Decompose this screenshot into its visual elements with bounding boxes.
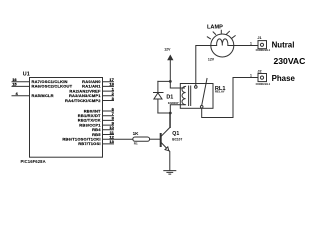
svg-text:230VAC: 230VAC <box>274 56 306 66</box>
svg-text:RA4/T0CKI/CMP2: RA4/T0CKI/CMP2 <box>65 98 101 103</box>
svg-text:1N4007: 1N4007 <box>168 101 179 105</box>
svg-text:Phase: Phase <box>272 74 296 83</box>
svg-text:RELAY: RELAY <box>215 90 225 94</box>
svg-text:U1: U1 <box>23 71 30 77</box>
svg-text:13: 13 <box>109 139 114 144</box>
svg-text:D1: D1 <box>166 94 173 100</box>
svg-text:RA5/MCLR: RA5/MCLR <box>32 93 54 98</box>
svg-text:12V: 12V <box>208 58 215 62</box>
svg-text:Nutral: Nutral <box>272 40 295 49</box>
svg-text:RA6/OSC2/CLKOUT: RA6/OSC2/CLKOUT <box>32 84 73 89</box>
svg-text:BC107: BC107 <box>172 138 182 142</box>
svg-text:1: 1 <box>250 42 252 46</box>
svg-text:CONN-SIL1: CONN-SIL1 <box>256 48 271 52</box>
svg-text:LAMP: LAMP <box>207 24 223 30</box>
svg-text:15: 15 <box>12 82 17 87</box>
svg-text:Q1: Q1 <box>172 131 179 137</box>
svg-text:CONN-SIL1: CONN-SIL1 <box>256 82 271 86</box>
svg-text:RB7/T1OSI: RB7/T1OSI <box>78 141 100 146</box>
svg-text:R1: R1 <box>134 141 138 145</box>
svg-text:J2: J2 <box>257 70 261 74</box>
svg-text:12V: 12V <box>164 48 171 52</box>
svg-text:1: 1 <box>250 74 252 78</box>
svg-text:PIC16F628A: PIC16F628A <box>21 159 46 164</box>
svg-text:J1: J1 <box>257 36 261 40</box>
svg-text:1K: 1K <box>133 131 140 136</box>
